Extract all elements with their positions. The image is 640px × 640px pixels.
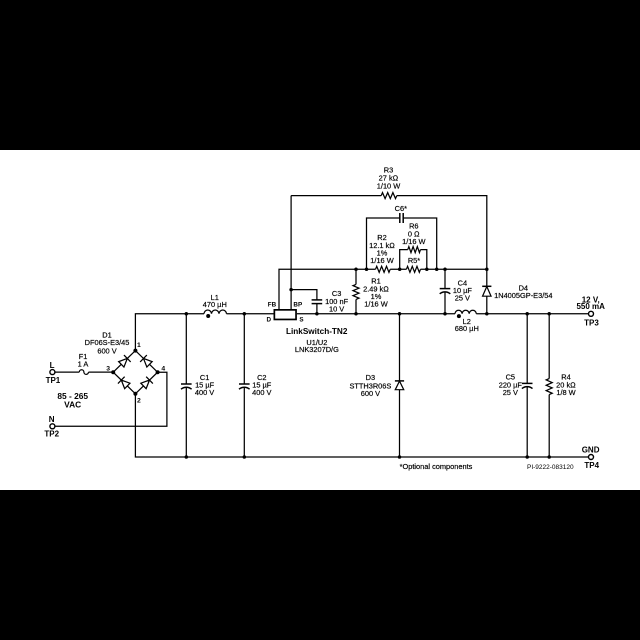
resistor R3 — [381, 193, 397, 199]
L1 polarity dot — [206, 314, 210, 318]
svg-text:LinkSwitch-TN2: LinkSwitch-TN2 — [286, 327, 348, 336]
svg-text:1/10 W: 1/10 W — [377, 181, 400, 190]
note PI-9222-083120 — [527, 464, 574, 471]
svg-text:R5*: R5* — [408, 256, 420, 265]
label D3 STTH3R06S 600 V — [349, 373, 391, 398]
svg-text:1N4005GP-E3/54: 1N4005GP-E3/54 — [494, 291, 552, 300]
svg-text:VAC: VAC — [64, 400, 81, 410]
label C6* — [395, 204, 407, 213]
svg-text:L: L — [50, 361, 55, 370]
svg-text:10 V: 10 V — [329, 305, 344, 314]
pin number 2 — [137, 398, 141, 405]
svg-text:470 µH: 470 µH — [203, 300, 227, 309]
junction C4 top — [443, 268, 447, 272]
junction bridge pin 2 — [133, 392, 137, 396]
svg-text:TP3: TP3 — [584, 318, 599, 327]
svg-text:S: S — [299, 316, 303, 323]
capacitor C5 — [522, 314, 533, 457]
junction C1 bottom — [185, 455, 189, 459]
junction C2 bottom — [243, 455, 247, 459]
svg-text:600 V: 600 V — [97, 347, 116, 356]
wire fuse to bridge pin 3 — [89, 371, 114, 373]
pin label FB — [268, 302, 277, 309]
label 12 V 550 mA — [576, 296, 605, 311]
op-amp-style IC U1/U2 LinkSwitch-TN2 body — [274, 310, 296, 320]
wire L2 to TP3 — [476, 313, 588, 315]
wire BP pin up to R3 branch — [290, 196, 292, 309]
bridge diode D1c (pin2 to pin3) — [118, 377, 130, 389]
junction D4 anode on output line — [485, 312, 489, 316]
label 85 - 265 VAC — [57, 391, 88, 410]
junction C6 left — [365, 268, 369, 272]
diode D3 — [395, 314, 404, 457]
svg-text:1: 1 — [137, 342, 141, 349]
label TP2 — [44, 430, 59, 439]
wire S pin to L2 — [297, 313, 455, 315]
svg-text:25 V: 25 V — [455, 293, 470, 302]
resistor R6 — [400, 247, 427, 270]
junction bridge pin 4 — [156, 370, 160, 374]
resistor R5* — [406, 266, 420, 272]
wire FB pin up to feedback line — [279, 269, 356, 309]
junction R4 bottom — [547, 455, 551, 459]
junction bridge pin 1 — [133, 349, 137, 353]
label R6 0 Ohm 1/16 W — [402, 222, 425, 247]
junction D3 top on S line — [398, 312, 402, 316]
inductor L1 — [204, 310, 227, 314]
wire R3 branch right to D4 cathode — [397, 196, 487, 287]
label L — [50, 361, 55, 370]
wire feedback line R1 to R2 — [356, 268, 376, 270]
svg-text:*Optional components: *Optional components — [400, 462, 473, 471]
bridge diode D1a (pin3 to pin1) — [119, 355, 131, 367]
label GND — [582, 445, 600, 454]
junction R4 top — [547, 312, 551, 316]
svg-text:N: N — [49, 415, 55, 424]
pin number 1 — [137, 342, 141, 349]
junction R6 left — [398, 268, 402, 272]
label L2 680 uH — [455, 317, 479, 333]
wire R3 branch left — [291, 195, 381, 197]
pin label S — [299, 316, 303, 323]
label R1 2.49 kOhm 1% 1/16 W — [363, 276, 389, 308]
pin label D — [267, 316, 272, 323]
svg-text:3: 3 — [106, 365, 110, 372]
label C4 10 uF 25 V — [453, 279, 473, 303]
svg-text:FB: FB — [268, 302, 277, 309]
junction D3 bottom on return rail — [398, 455, 402, 459]
svg-text:400 V: 400 V — [195, 388, 214, 397]
label R2 12.1 kOhm 1% 1/16 W — [369, 233, 395, 265]
capacitor C1 — [181, 314, 192, 457]
junction D4 top on feedback node — [485, 268, 489, 272]
label TP4 — [584, 461, 599, 470]
junction C4 bottom — [443, 312, 447, 316]
pin label BP — [293, 302, 302, 309]
junction R1 top on feedback line — [354, 268, 358, 272]
pin number 4 — [161, 365, 165, 372]
label C2 15 uF 400 V — [252, 373, 272, 397]
capacitor C3 — [291, 290, 322, 314]
wire R5 to D4 node — [421, 268, 487, 270]
bridge D1 outline — [113, 351, 157, 394]
wire L1 to IC D pin — [227, 313, 274, 315]
label R4 20 kOhm 1/8 W — [556, 372, 576, 397]
capacitor C6* — [367, 213, 437, 269]
pin number 3 — [106, 365, 110, 372]
bridge diode D1d (pin2 to pin4) — [141, 377, 153, 389]
svg-text:1 A: 1 A — [78, 360, 89, 369]
wire bridge pin 2 down to return rail — [135, 394, 588, 457]
svg-text:2: 2 — [137, 398, 141, 405]
svg-text:4: 4 — [161, 365, 165, 372]
diode D4 — [482, 286, 491, 314]
label F1 1 A — [78, 352, 89, 369]
svg-text:400 V: 400 V — [252, 388, 271, 397]
svg-text:GND: GND — [582, 445, 600, 454]
fuse F1 — [79, 370, 88, 375]
L2 polarity dot — [457, 314, 461, 318]
wire bridge pin 1 up to rail — [135, 314, 204, 351]
resistor R4 — [546, 314, 552, 457]
svg-text:PI-9222-083120: PI-9222-083120 — [527, 464, 574, 471]
label R5* — [408, 256, 420, 265]
bridge diode D1b (pin4 to pin1) — [140, 355, 152, 367]
terminal TP1 (L input) — [50, 370, 55, 375]
junction C5 bottom — [525, 455, 529, 459]
terminal TP2 (N input) — [50, 424, 55, 429]
svg-text:D: D — [267, 316, 272, 323]
terminal TP3 (12 V output) — [589, 311, 594, 316]
junction C1 top — [185, 312, 189, 316]
junction BP/C3 tap — [289, 288, 293, 292]
schematic white sheet — [0, 150, 640, 490]
label L1 470 uH — [203, 293, 227, 309]
svg-text:TP2: TP2 — [44, 430, 59, 439]
svg-text:1/8 W: 1/8 W — [556, 388, 575, 397]
junction C3 bottom on S line — [315, 312, 319, 316]
capacitor C4 — [440, 269, 451, 314]
junction R6 right — [425, 268, 429, 272]
label D4 1N4005GP-E3/54 — [494, 283, 552, 300]
wire N from TP2 to bridge pin 4 — [55, 372, 167, 426]
junction R1 bottom on S line — [354, 312, 358, 316]
svg-text:680 µH: 680 µH — [455, 324, 479, 333]
svg-text:1/16 W: 1/16 W — [402, 237, 425, 246]
label C3 100 nF 10 V — [325, 289, 348, 314]
wire R2 to R5 — [390, 268, 406, 270]
svg-text:1/16 W: 1/16 W — [364, 300, 387, 309]
label D1 DF06S-E3/45 600 V — [85, 330, 130, 355]
label U1/U2 LNK3207D/G — [295, 338, 339, 354]
label N — [49, 415, 55, 424]
svg-text:TP1: TP1 — [46, 376, 61, 385]
resistor R1 — [353, 269, 359, 314]
label R3 27 kOhm 1/10 W — [377, 166, 400, 191]
svg-text:550 mA: 550 mA — [576, 302, 605, 311]
junction C5 top — [525, 312, 529, 316]
wire TP1 to fuse F1 — [55, 371, 79, 373]
junction C6 right — [435, 268, 439, 272]
svg-text:1/16 W: 1/16 W — [370, 256, 393, 265]
inductor L2 — [455, 310, 476, 314]
junction bridge pin 3 — [111, 370, 115, 374]
label LinkSwitch-TN2 — [286, 327, 348, 336]
svg-text:600 V: 600 V — [361, 389, 380, 398]
junction C2 top — [243, 312, 247, 316]
label TP3 — [584, 318, 599, 327]
label C5 220 uF 25 V — [499, 372, 523, 397]
svg-text:LNK3207D/G: LNK3207D/G — [295, 345, 339, 354]
label C1 15 uF 400 V — [195, 373, 215, 397]
label TP1 — [46, 376, 61, 385]
terminal TP4 (GND) — [589, 455, 594, 460]
capacitor C2 — [239, 314, 250, 457]
resistor R2 — [376, 266, 391, 272]
svg-text:C6*: C6* — [395, 204, 407, 213]
note optional components — [400, 462, 473, 471]
svg-text:25 V: 25 V — [503, 388, 518, 397]
svg-text:TP4: TP4 — [584, 461, 599, 470]
svg-text:BP: BP — [293, 302, 302, 309]
